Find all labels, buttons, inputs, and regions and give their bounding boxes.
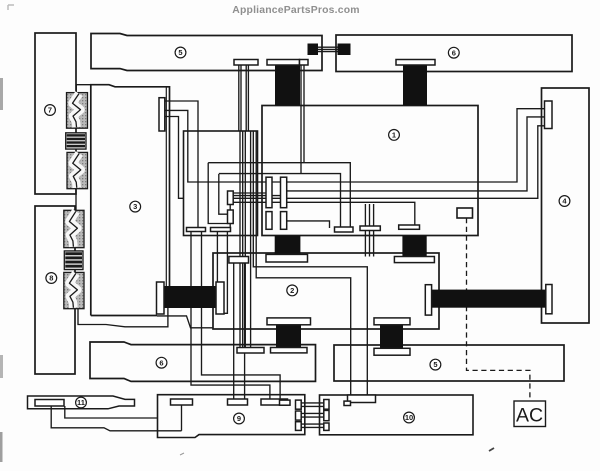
svg-text:3: 3: [133, 202, 137, 211]
svg-text:10: 10: [405, 413, 413, 422]
svg-text:5: 5: [433, 360, 437, 369]
svg-text:9: 9: [237, 414, 241, 423]
svg-text:7: 7: [48, 106, 52, 115]
svg-text:1: 1: [392, 131, 396, 140]
svg-text:5: 5: [178, 48, 182, 57]
svg-text:11: 11: [77, 398, 85, 407]
svg-text:6: 6: [452, 48, 456, 57]
svg-text:AC: AC: [516, 405, 543, 427]
svg-text:2: 2: [290, 286, 294, 295]
svg-text:AppliancePartsPros.com: AppliancePartsPros.com: [232, 5, 359, 16]
svg-text:6: 6: [159, 358, 163, 367]
svg-text:8: 8: [49, 274, 53, 283]
